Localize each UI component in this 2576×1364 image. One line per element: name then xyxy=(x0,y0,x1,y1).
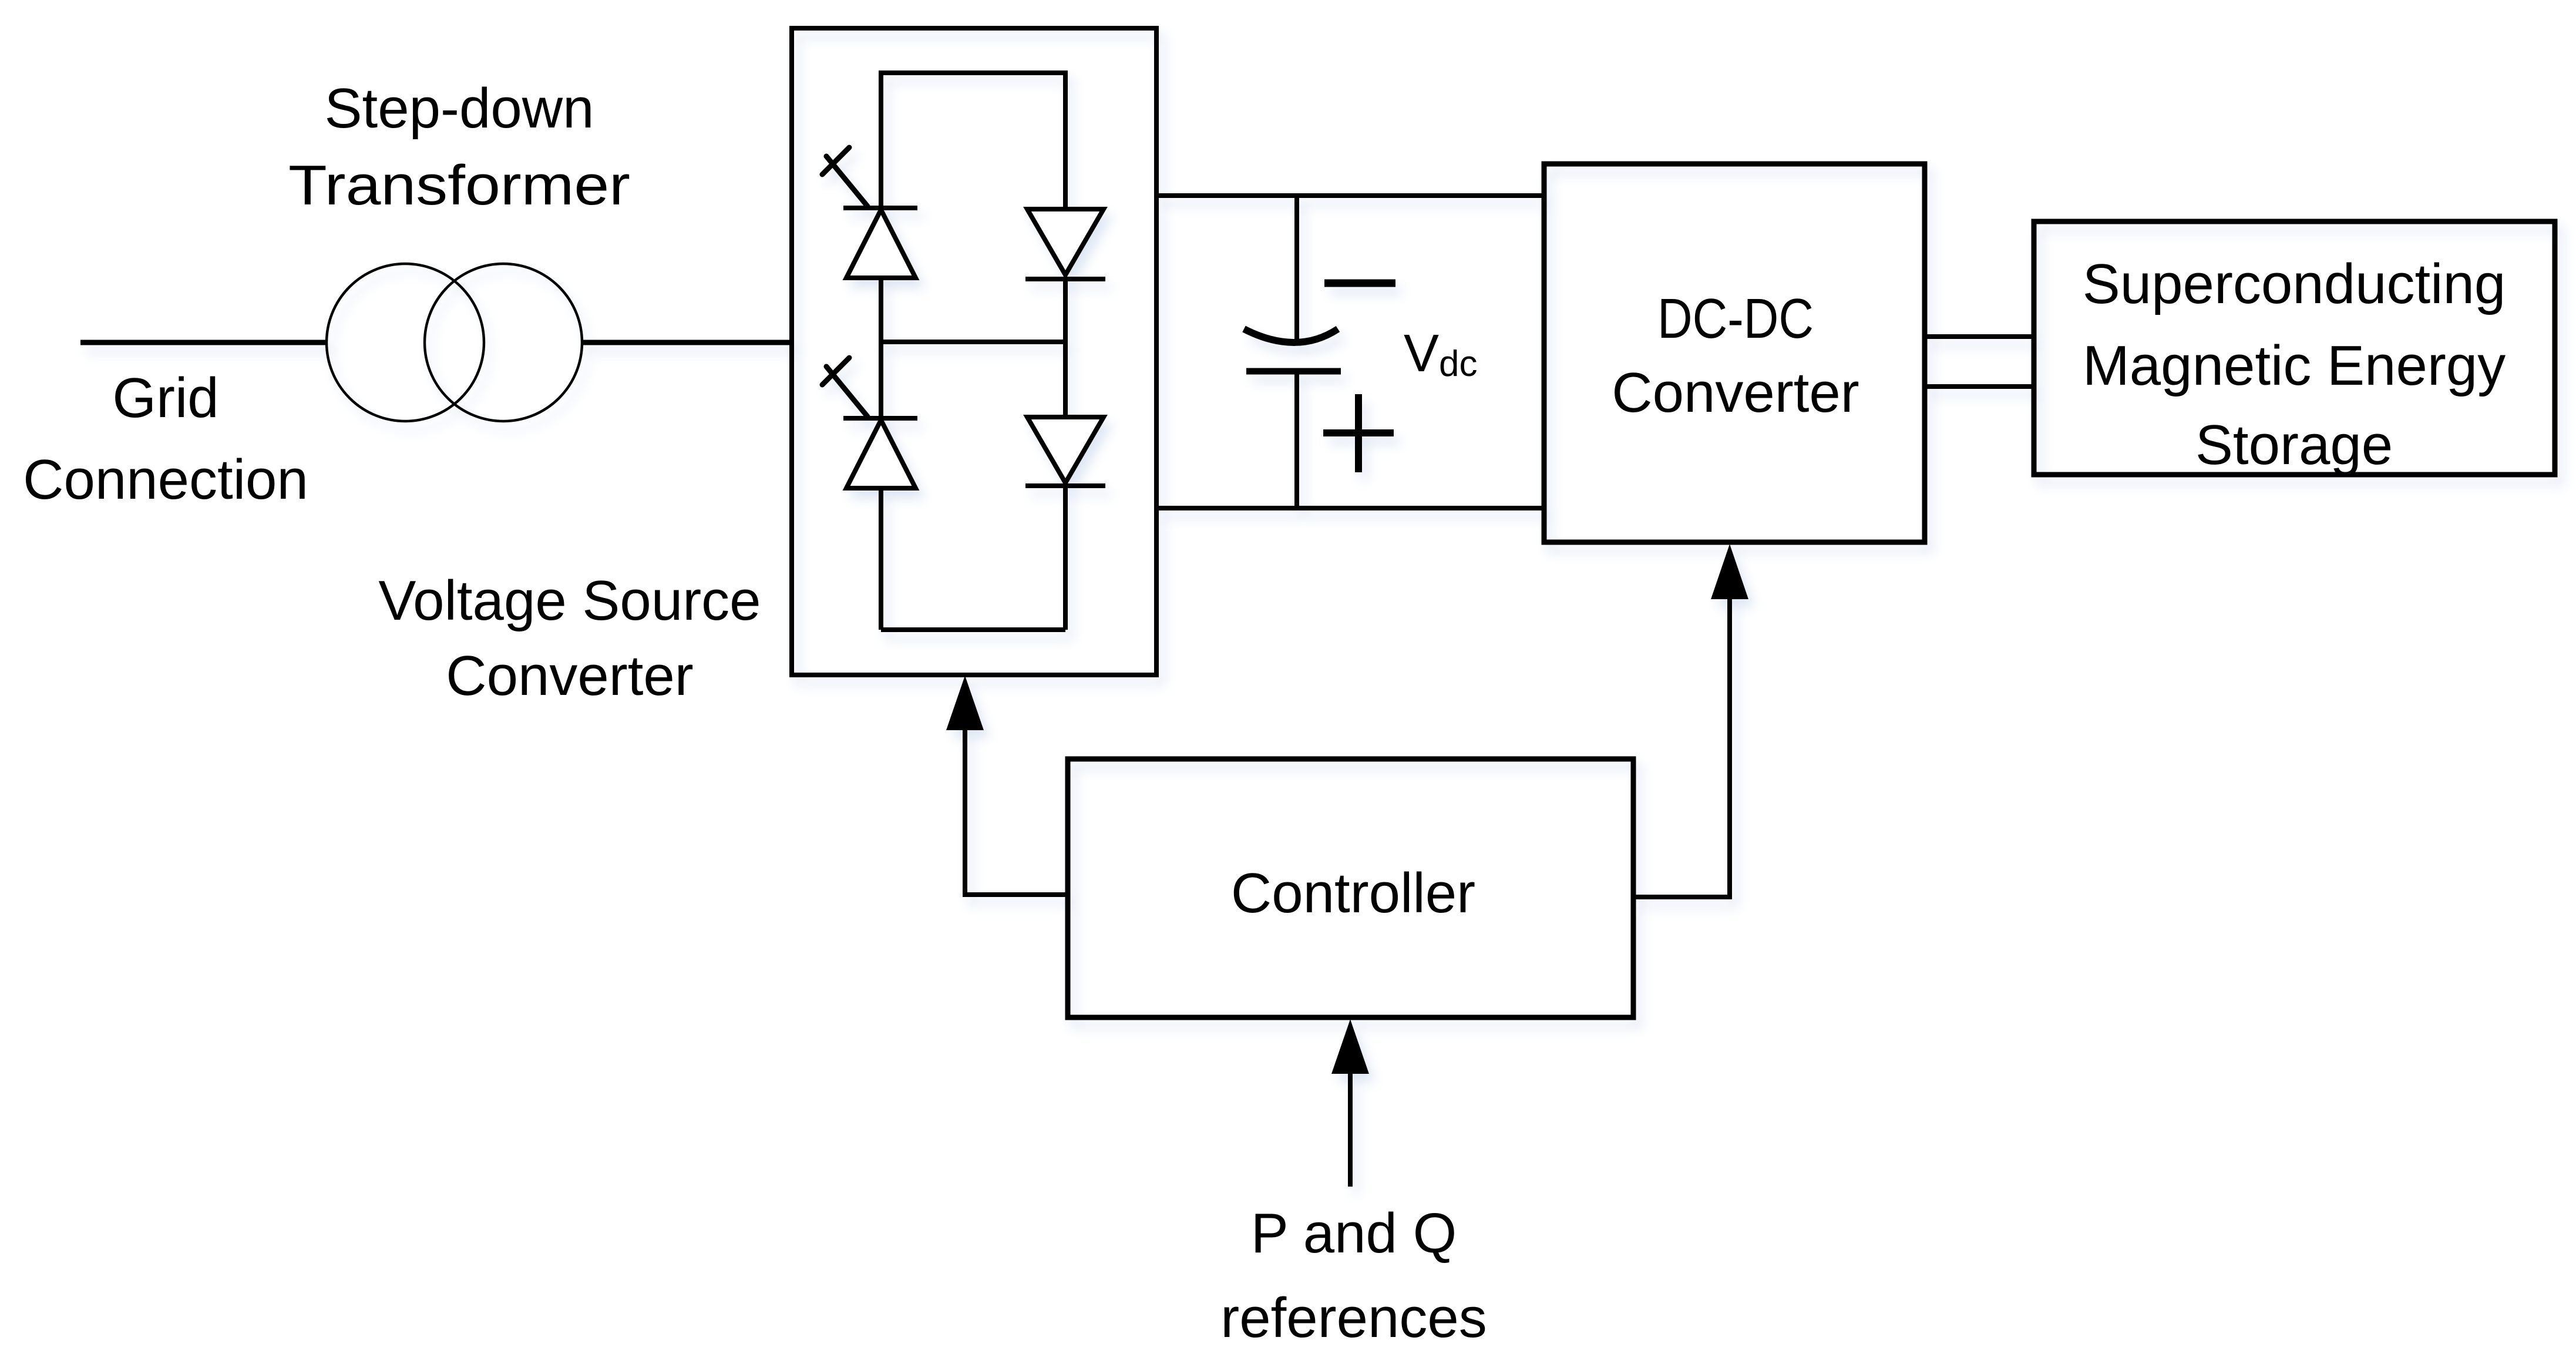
svg-text:Voltage Source: Voltage Source xyxy=(378,569,761,632)
thyristor Q2 triangle xyxy=(846,420,916,488)
svg-text:Converter: Converter xyxy=(1612,361,1859,424)
wire right branch lower xyxy=(1063,486,1068,630)
wire capacitor bottom lead xyxy=(1294,371,1299,508)
svg-text:DC-DC: DC-DC xyxy=(1657,287,1814,350)
VSC box outline xyxy=(792,28,1156,675)
diode D1 cathode bar xyxy=(1025,277,1105,281)
wire bottom rail xyxy=(881,627,1065,632)
arrowhead into VSC xyxy=(946,676,984,730)
diode D2 cathode bar xyxy=(1025,483,1105,488)
DC-DC converter box outline xyxy=(1544,164,1925,542)
wire right branch mid xyxy=(1063,279,1068,417)
wire capacitor top lead xyxy=(1294,196,1299,344)
transformer T1 secondary winding xyxy=(425,264,582,421)
wire top rail xyxy=(881,70,1065,75)
svg-text:Storage: Storage xyxy=(2195,414,2393,476)
svg-text:Connection: Connection xyxy=(23,448,308,511)
svg-text:Vdc: Vdc xyxy=(1404,324,1478,384)
wire P Q references input xyxy=(1348,1074,1353,1187)
capacitor C1 top plate (curved) xyxy=(1244,329,1338,342)
svg-text:Transformer: Transformer xyxy=(288,154,630,217)
svg-text:Step-down: Step-down xyxy=(325,77,594,140)
wire grid input xyxy=(80,340,327,345)
diode D1 triangle xyxy=(1027,209,1104,275)
thyristor Q2 gate lead xyxy=(826,367,867,416)
wire transformer to VSC xyxy=(581,340,794,345)
transformer T1 primary winding xyxy=(327,264,484,421)
plus sign vertical xyxy=(1355,394,1362,472)
wire left branch mid xyxy=(879,278,883,418)
wire mid rail xyxy=(881,340,1065,344)
thyristor Q1 cathode bar xyxy=(843,206,917,210)
thyristor Q1 gate lead xyxy=(826,156,867,206)
diode D2 triangle xyxy=(1027,417,1104,483)
wire left branch upper stub xyxy=(879,70,883,208)
arrowhead into DC-DC xyxy=(1711,544,1748,599)
svg-text:Superconducting: Superconducting xyxy=(2083,253,2506,315)
thyristor Q1 triangle xyxy=(846,210,916,278)
svg-text:P and Q: P and Q xyxy=(1251,1202,1457,1265)
minus sign xyxy=(1324,280,1395,287)
arrowhead into controller xyxy=(1331,1019,1369,1074)
SMES box outline xyxy=(2034,221,2555,475)
wire controller to VSC xyxy=(965,730,1068,895)
wire DC-DC to SMES bottom xyxy=(1925,384,2034,389)
wire left branch lower xyxy=(879,488,883,630)
wire DC-DC to SMES top xyxy=(1925,334,2034,339)
capacitor C1 bottom plate xyxy=(1246,368,1341,375)
svg-text:Controller: Controller xyxy=(1231,862,1475,925)
wire dc bus bottom xyxy=(1158,506,1544,510)
wire dc bus top xyxy=(1158,193,1544,198)
svg-text:references: references xyxy=(1220,1286,1487,1349)
svg-text:Magnetic Energy: Magnetic Energy xyxy=(2083,334,2506,397)
controller box outline xyxy=(1068,759,1633,1017)
thyristor Q1 gate cross xyxy=(822,147,849,174)
wire controller to DC-DC xyxy=(1633,599,1730,897)
thyristor Q2 cathode bar xyxy=(843,416,917,421)
svg-text:Grid: Grid xyxy=(112,367,218,429)
thyristor Q2 gate cross xyxy=(822,358,849,385)
plus sign horizontal xyxy=(1323,429,1394,436)
svg-text:Converter: Converter xyxy=(446,644,694,707)
wire right branch upper stub xyxy=(1063,70,1068,209)
